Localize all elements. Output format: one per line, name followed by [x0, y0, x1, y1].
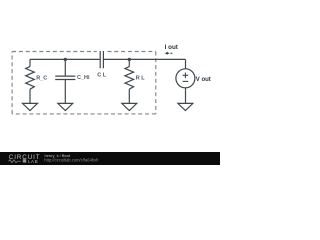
footer watermark bar	[0, 152, 220, 165]
wire: C_L right plate to V source top corner	[104, 58, 186, 60]
dashed network box top edge (gap at C_L)	[12, 51, 156, 53]
resistor R_C	[26, 59, 35, 103]
dashed network box bottom edge	[12, 113, 156, 115]
dashed network box right edge	[155, 52, 157, 114]
wire: main node from R_C top to C_L left plate	[30, 58, 100, 60]
node B (junction dot at R_L)	[128, 58, 131, 61]
svg-text:LAB: LAB	[28, 159, 38, 164]
svg-text:C L: C L	[97, 72, 107, 78]
svg-text:V out: V out	[196, 77, 211, 83]
ground (under R_L)	[122, 103, 137, 110]
svg-text:R_C: R_C	[36, 75, 47, 81]
capacitor C_Hi	[55, 59, 75, 103]
svg-text:C_Hi: C_Hi	[77, 75, 90, 81]
voltage source V1	[176, 59, 195, 103]
svg-text:http://circuitlab.com/c/fa64hv: http://circuitlab.com/c/fa64hvh	[44, 157, 99, 162]
CircuitLab logo LAB	[23, 159, 26, 162]
capacitor C_L (series)	[100, 51, 103, 68]
ground (under C_Hi)	[58, 103, 73, 110]
resistor R_L	[125, 59, 134, 103]
svg-text:I out: I out	[165, 44, 179, 51]
node A (junction dot at C_Hi)	[64, 58, 67, 61]
current annotation I out (arrow)	[165, 52, 173, 55]
dashed network box left edge	[11, 52, 13, 114]
ground (under R_C)	[23, 103, 38, 110]
CircuitLab logo zigzag	[9, 160, 22, 163]
ground (under V source)	[178, 103, 193, 110]
svg-text:R L: R L	[136, 76, 146, 82]
